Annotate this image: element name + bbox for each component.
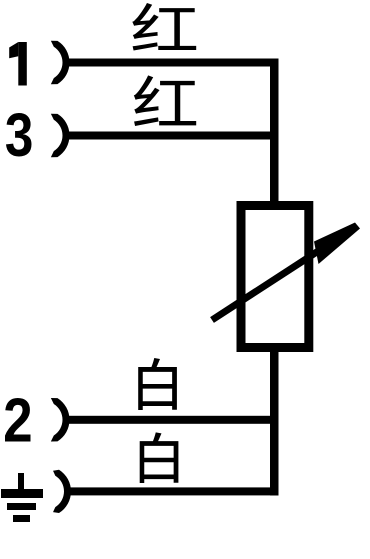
thermistor RT1 arrowhead [314, 223, 360, 265]
label bai (white) on wire W2 [138, 358, 177, 410]
pin 3 connector arc [51, 114, 70, 157]
pin label 1 (stem) [18, 42, 27, 86]
wire W1: pin1 to top-right corner [66, 59, 279, 67]
wire W4: ground pin to bottom-right corner [68, 487, 279, 495]
pin 2 connector arc [51, 398, 70, 441]
pin label 3 [6, 113, 32, 157]
pin label 1 (flag) [9, 42, 18, 58]
wire W2: pin2 to vertical bus (T junction) [66, 416, 279, 424]
ground connector arc [53, 470, 71, 513]
label hong (red) on wire W1 [132, 3, 196, 51]
thermistor RT1 body [241, 206, 309, 348]
ground symbol bar3 [13, 515, 30, 522]
pin label 2 [5, 398, 30, 442]
ground symbol bar2 [7, 503, 36, 510]
label bai (white) on wire W4 [140, 432, 179, 483]
wire vertical bus on right [270, 59, 279, 496]
thermistor RT1 arrow shaft [212, 249, 322, 320]
pin 1 connector arc [51, 41, 70, 84]
wire W3: pin3 to vertical bus (T junction) [66, 132, 279, 140]
ground symbol bar1 [1, 489, 43, 498]
label hong (red) on wire W3 [134, 75, 196, 126]
ground symbol stem [18, 473, 24, 490]
